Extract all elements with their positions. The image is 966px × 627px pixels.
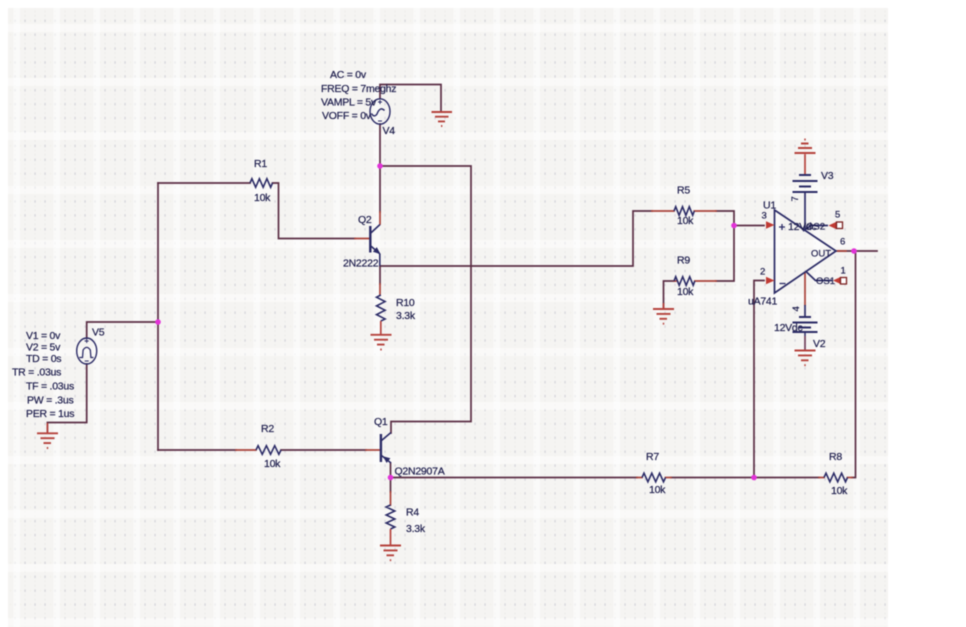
svg-text:TR = .03us: TR = .03us [12, 367, 61, 379]
svg-text:10k: 10k [264, 458, 281, 470]
svg-text:5: 5 [835, 210, 840, 221]
svg-text:PER = 1us: PER = 1us [26, 408, 74, 420]
svg-text:VAMPL = 5v: VAMPL = 5v [321, 97, 377, 109]
svg-text:AC = 0v: AC = 0v [330, 69, 367, 81]
svg-text:PW = .3us: PW = .3us [27, 395, 73, 407]
svg-text:6: 6 [840, 237, 845, 248]
svg-text:2N2222: 2N2222 [343, 258, 379, 270]
svg-text:7: 7 [790, 196, 801, 201]
svg-text:VOFF = 0v: VOFF = 0v [322, 110, 372, 122]
svg-text:Q2: Q2 [358, 214, 372, 226]
svg-text:3.3k: 3.3k [406, 523, 426, 535]
svg-text:V2 = 5v: V2 = 5v [26, 342, 61, 354]
svg-text:V5: V5 [92, 327, 105, 339]
svg-text:R5: R5 [677, 185, 690, 197]
svg-text:R4: R4 [406, 507, 419, 519]
svg-text:R10: R10 [396, 297, 415, 309]
svg-text:V1 = 0v: V1 = 0v [26, 330, 61, 342]
svg-text:1: 1 [841, 266, 846, 277]
svg-text:FREQ = 7meghz: FREQ = 7meghz [321, 83, 396, 95]
svg-text:10k: 10k [831, 485, 848, 497]
svg-text:4: 4 [791, 306, 802, 311]
svg-text:OS2: OS2 [806, 222, 825, 233]
svg-text:OUT: OUT [811, 249, 831, 260]
svg-text:R7: R7 [646, 451, 659, 463]
svg-text:R9: R9 [677, 255, 690, 267]
svg-text:12Vdc: 12Vdc [774, 322, 803, 334]
svg-text:R2: R2 [261, 423, 274, 435]
svg-text:3: 3 [762, 211, 767, 222]
svg-text:R8: R8 [829, 451, 842, 463]
svg-text:Q1: Q1 [374, 416, 388, 428]
svg-text:10k: 10k [254, 192, 271, 204]
svg-text:R1: R1 [254, 158, 267, 170]
svg-text:2: 2 [760, 267, 765, 278]
svg-text:TD = 0s: TD = 0s [26, 353, 61, 365]
svg-text:V4: V4 [383, 125, 396, 137]
svg-text:OS1: OS1 [816, 276, 835, 287]
svg-text:10k: 10k [649, 484, 666, 496]
svg-text:V2: V2 [813, 338, 826, 350]
svg-text:10k: 10k [677, 215, 694, 227]
svg-text:10k: 10k [677, 286, 694, 298]
svg-text:uA741: uA741 [748, 296, 778, 308]
svg-text:Q2N2907A: Q2N2907A [395, 466, 445, 478]
svg-text:3.3k: 3.3k [396, 310, 416, 322]
svg-text:V3: V3 [821, 170, 834, 182]
svg-text:TF = .03us: TF = .03us [26, 381, 74, 393]
